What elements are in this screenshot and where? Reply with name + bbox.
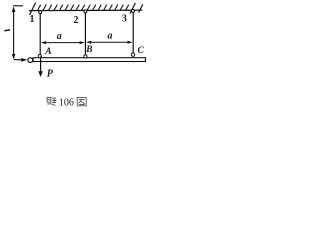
svg-text:3: 3 [122, 14, 127, 25]
svg-text:a: a [108, 30, 113, 41]
svg-text:a: a [57, 31, 62, 42]
force P arrow [40, 57, 42, 74]
l dimension top arrowhead (up) [12, 7, 16, 12]
svg-text:1: 1 [30, 14, 35, 25]
ceiling line [29, 9, 143, 11]
dimension line a between rods 2 and 3 [88, 41, 130, 43]
dimension line a between rods 1 and 2 [43, 42, 83, 44]
ceiling hatching [38, 5, 129, 11]
caption: character 图 [77, 98, 86, 106]
l dimension vertical line [13, 7, 15, 58]
rod 3 [132, 12, 134, 53]
caption: character 题 [47, 98, 56, 106]
rod 1 [39, 13, 41, 54]
hinge circle top of rod 1 [39, 11, 42, 14]
top extension tick [13, 5, 23, 7]
hinge circle at C [131, 53, 134, 56]
hinge circle at A [38, 55, 41, 58]
svg-text:P: P [47, 68, 54, 79]
hinge circle at B [84, 55, 87, 58]
svg-text:106: 106 [59, 97, 74, 108]
hinge circle at beam left end [28, 58, 33, 63]
beam [33, 58, 145, 62]
ceiling hatch crossing stroke left end [30, 3, 36, 15]
horizontal link arrow at beam left end [14, 59, 22, 61]
svg-text:B: B [85, 45, 92, 55]
rod 2 [84, 13, 86, 55]
label l [4, 29, 10, 31]
svg-text:2: 2 [74, 15, 79, 26]
svg-text:C: C [138, 46, 145, 56]
ceiling hatch crossing stroke right end [139, 4, 143, 12]
hinge circle top of rod 3 [132, 9, 135, 12]
ceiling hatch crossing stroke at rod 3 [130, 3, 135, 14]
l dimension bottom arrowhead (down) [12, 54, 16, 59]
hinge circle top of rod 2 [84, 10, 87, 13]
svg-text:A: A [44, 47, 51, 57]
